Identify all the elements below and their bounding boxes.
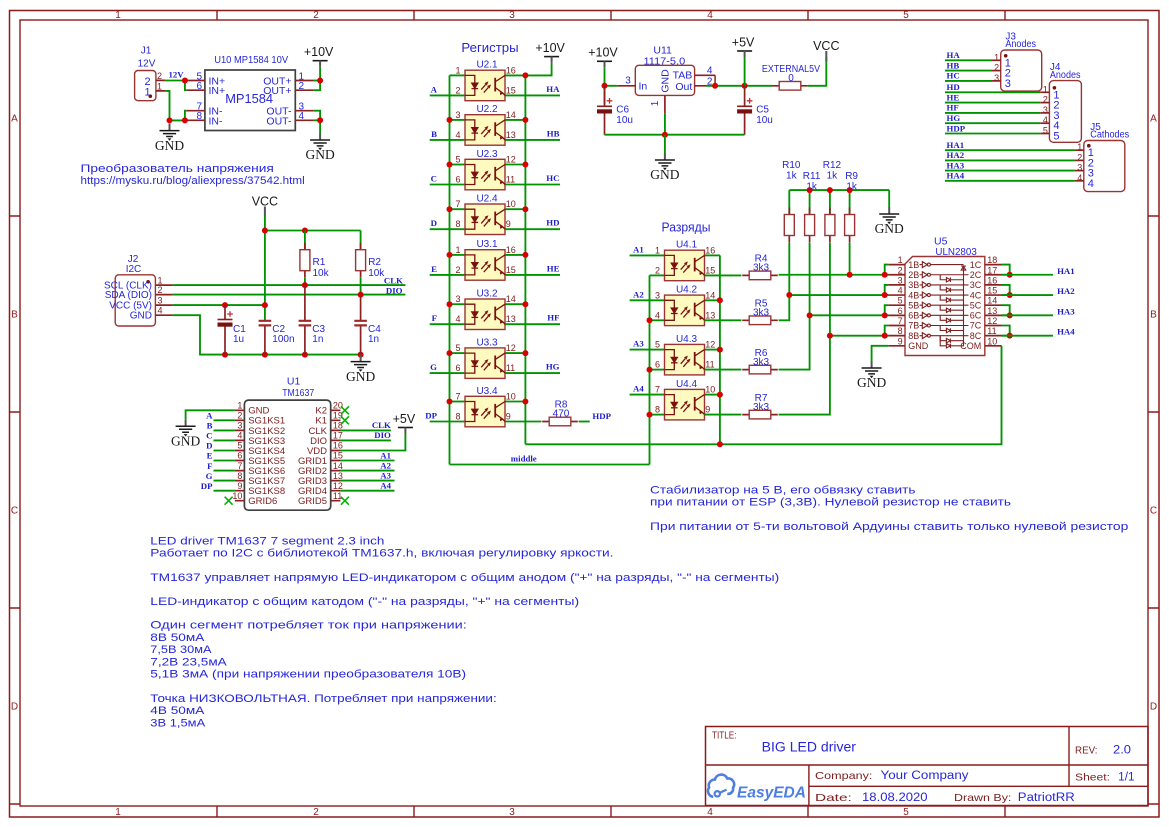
svg-text:1: 1 [115,10,121,21]
svg-text:4: 4 [655,310,660,320]
svg-text:13: 13 [506,314,516,324]
wire J1.1 to GND [165,91,186,121]
junction U5 in tie 6 [882,312,888,318]
svg-text:1: 1 [1043,84,1048,94]
power VCC (top) [825,51,827,61]
svg-text:8: 8 [237,471,242,481]
wire gnd stem wire [664,135,666,153]
svg-text:1: 1 [237,401,242,411]
wire HA to J3 [945,59,992,61]
wire HDP to J4 [945,133,1040,135]
junction R12 bus [827,187,833,193]
svg-text:5: 5 [455,343,460,353]
svg-text:OUT+: OUT+ [263,85,291,97]
svg-text:18.08.2020: 18.08.2020 [862,792,928,804]
svg-text:GND: GND [659,69,671,93]
svg-text:LED-индикатор с общим катодом: LED-индикатор с общим катодом ("-" на ра… [150,596,579,608]
junction R12 join [827,333,833,339]
capacitor C1 (polarized) [218,305,233,355]
svg-text:4: 4 [898,286,903,296]
svg-text:B: B [207,421,213,431]
wire U4.4 pin 10 to bus [705,394,720,396]
svg-text:U4.4: U4.4 [676,379,698,390]
svg-text:TITLE:: TITLE: [712,731,737,742]
optocoupler U3.3 [465,348,505,379]
svg-text:+10V: +10V [588,46,618,60]
resistor R10 body [784,208,794,243]
svg-text:U2.4: U2.4 [476,194,498,205]
junction R1 top [302,228,308,234]
junction U5 out tie 13 [1007,312,1013,318]
svg-text:10: 10 [506,392,516,402]
svg-text:Sheet:: Sheet: [1075,772,1110,784]
svg-text:VCC: VCC [813,39,839,53]
junction U5 in tie 2 [882,272,888,278]
junction 12V [182,78,188,84]
svg-text:8В 50мА: 8В 50мА [150,632,205,644]
svg-text:A: A [206,411,213,421]
no-connect X U1 pin 10 [225,497,233,505]
svg-text:GRID5: GRID5 [298,496,327,507]
svg-text:Cathodes: Cathodes [1090,130,1129,141]
svg-text:1k: 1k [827,170,839,181]
svg-text:14: 14 [333,461,343,471]
svg-text:18: 18 [333,421,343,431]
junction U5 out tie 15 [1007,292,1013,298]
svg-text:6: 6 [196,81,202,92]
wire input E [430,274,465,276]
svg-text:U10 MP1584 10V: U10 MP1584 10V [214,54,288,66]
junction left bus U4.2 [647,317,653,323]
svg-text:A2: A2 [380,460,391,470]
svg-text:A3: A3 [633,339,644,349]
junction C2 bottom [262,352,268,358]
junction CLK-R1 [302,282,308,288]
svg-text:3В 1,5мА: 3В 1,5мА [150,717,206,729]
svg-text:GND: GND [346,369,375,384]
wire output HG [505,372,560,374]
svg-text:7C: 7C [970,321,982,331]
junction left bus U4.4 [647,412,653,418]
junction R11 join [807,312,813,318]
svg-text:1: 1 [144,86,150,98]
svg-text:12: 12 [506,343,516,353]
U5 driver 4 [920,292,969,298]
svg-text:1: 1 [158,276,163,286]
resistor R11 body [805,208,815,243]
svg-text:HG: HG [947,113,961,123]
wire bus to U2.1 pin 1 [450,74,466,76]
svg-text:VCC: VCC [252,195,278,209]
svg-text:U2.3: U2.3 [476,149,498,160]
svg-text:13: 13 [987,306,997,316]
junction right bus U3.4 [522,399,528,405]
junction C3 bottom [302,352,308,358]
wire U10.2 to +10V [314,81,320,91]
svg-text:17: 17 [987,265,997,275]
svg-text:HA4: HA4 [947,171,965,181]
U5 COM diode bus [940,266,966,348]
wire bus to U4.2 pin 4 [650,319,665,321]
wire U5 pin14-pin13 tie [1002,305,1010,315]
wire output HD [505,228,560,230]
wire +10V stem [319,67,321,81]
svg-text:+5V: +5V [393,412,416,426]
resistor R7 [742,410,778,419]
svg-text:DIO: DIO [386,286,403,296]
svg-text:4В 50мА: 4В 50мА [150,705,205,717]
resistor R4 [742,271,778,280]
wire GND to U10.7 [185,111,186,121]
svg-text:19: 19 [333,411,343,421]
svg-text:2: 2 [898,265,903,275]
wire U4.1 pin 16 to bus [705,254,720,256]
svg-text:+10V: +10V [535,41,565,55]
svg-text:0: 0 [788,73,794,84]
svg-text:8: 8 [898,326,903,336]
svg-text:Company:: Company: [815,770,872,782]
svg-text:11: 11 [333,491,342,501]
svg-text:10: 10 [506,199,516,209]
ground J2 [351,355,371,372]
svg-text:4: 4 [455,130,460,140]
svg-text:C: C [1150,506,1157,517]
wire input A4 [630,394,665,396]
svg-text:4: 4 [707,65,713,76]
svg-text:Out: Out [675,81,692,93]
svg-text:13: 13 [506,130,516,140]
svg-text:1: 1 [455,245,460,255]
wire bus to U2.2 pin 3 [450,119,466,121]
wire U3.1 pin 16 to +10V bus [505,254,525,256]
svg-text:G: G [206,471,213,481]
svg-text:HA1: HA1 [947,140,965,150]
svg-text:HA4: HA4 [1057,327,1075,337]
wire U1 GRID1 A1 [340,460,394,462]
svg-text:16: 16 [333,441,343,451]
wire HA4 to J5 [945,180,1075,182]
svg-text:5: 5 [903,10,909,21]
svg-text:8B: 8B [908,331,919,341]
svg-text:R1: R1 [313,257,326,268]
junction R9 bus [847,187,853,193]
svg-text:3: 3 [455,110,460,120]
svg-text:Работает по I2C с библиотекой: Работает по I2C с библиотекой TM1637.h, … [150,548,613,560]
svg-text:8: 8 [655,405,660,415]
wire U3.2 pin 14 to +10V bus [505,303,525,305]
wire bus to U3.3 pin 5 [450,352,466,354]
junction right bus U4.2 [717,297,723,303]
svg-text:9: 9 [237,481,242,491]
svg-text:HDP: HDP [947,123,966,133]
svg-text:TAB: TAB [673,69,693,81]
resistor R12 body [825,208,835,243]
wire SDA/DIO [173,294,406,296]
wire U4.3 pin 12 to bus [705,349,720,351]
junction C1 top [222,302,228,308]
svg-text:4B: 4B [908,290,919,300]
svg-text:5: 5 [903,807,909,818]
svg-text:TM1637: TM1637 [282,387,314,399]
wire R11 top [809,190,811,214]
svg-text:15: 15 [506,265,516,275]
no-connect X U1 pin 20 [341,406,349,414]
junction left bus U4.3 [647,367,653,373]
wire HD to J4 [945,91,1040,93]
svg-text:10: 10 [987,336,997,346]
svg-text:5B: 5B [908,300,919,310]
junction VCC-J2 [262,302,268,308]
wire razryady right bus (+10V) [719,255,721,444]
svg-text:7: 7 [655,385,660,395]
svg-text:6: 6 [237,451,242,461]
svg-text:14: 14 [506,294,516,304]
wire input G [430,372,465,374]
wire HE to J4 [945,102,1040,104]
junction +10V In [602,83,608,89]
wire U1 VDD to +5V [340,434,405,451]
wire U1 CLK [340,429,391,431]
svg-text:J1: J1 [141,46,152,57]
svg-text:2: 2 [313,807,319,818]
junction right bus U4.4 [717,392,723,398]
svg-text:DIO: DIO [374,430,391,440]
svg-text:A: A [1150,114,1157,125]
junction GND-U10 [182,117,188,123]
no-connect X U1 pin 11 [341,497,349,505]
wire input D [430,228,465,230]
svg-text:LED driver TM1637 7 segment 2.: LED driver TM1637 7 segment 2.3 inch [150,535,384,547]
wire VCC to R1 R2 [265,230,361,232]
svg-text:B: B [11,310,18,321]
svg-text:7: 7 [455,392,460,402]
svg-text:11: 11 [987,326,996,336]
wire HF to J4 [945,112,1040,114]
connector J5 Cathodes [1075,141,1125,192]
wire bus to U2.3 pin 5 [450,164,466,166]
junction DIO-R2 [358,292,364,298]
svg-text:3k3: 3k3 [753,308,770,319]
wire R5 to U5 3B/4B [779,295,889,320]
junction R9 join [847,272,853,278]
junction left bus U2.2 [447,117,453,123]
junction right bus U2.4 [522,206,528,212]
junction right bus U3.3 [522,350,528,356]
wire U5 pin5-pin6 tie [885,305,889,315]
optocoupler U4.2 [665,295,705,326]
wire R6 to U5 5B/6B [779,315,889,369]
svg-text:4: 4 [707,10,713,21]
svg-text:6: 6 [455,175,460,185]
svg-text:4: 4 [158,306,163,316]
wire U4.2 pin 14 to bus [705,299,720,301]
svg-text:HA3: HA3 [1057,306,1075,316]
junction right bus U2.3 [522,162,528,168]
svg-text:GND: GND [857,375,886,390]
svg-text:5: 5 [655,340,660,350]
title block [706,727,1149,806]
svg-text:15: 15 [333,451,343,461]
svg-text:16: 16 [506,245,516,255]
power +10V (U10) [313,61,328,67]
wire R10 bottom [788,243,790,295]
svg-text:5: 5 [237,441,242,451]
wire +5V stem wire [744,57,746,86]
wire U1 input D [214,450,235,452]
wire U1 input B [214,429,235,431]
svg-text:14: 14 [506,110,516,120]
svg-text:5: 5 [1043,126,1048,136]
svg-text:HA: HA [947,50,961,60]
svg-text:HDP: HDP [592,411,611,421]
optocoupler U2.2 [465,115,505,146]
svg-text:10u: 10u [616,115,633,126]
module U10 MP1584 [186,70,314,131]
svg-text:12V: 12V [169,70,185,80]
wire J2 GND bus [173,315,361,354]
svg-text:U3.4: U3.4 [476,386,498,397]
svg-text:Date:: Date: [815,792,852,804]
connector J2 [115,275,172,326]
svg-text:8: 8 [455,412,460,422]
wire U1 GND [186,410,235,419]
svg-text:7: 7 [237,461,242,471]
capacitor C2 [259,321,272,355]
wire output HF [505,323,560,325]
junction R11 bus [807,187,813,193]
EasyEDA logo [708,775,734,797]
svg-text:DP: DP [201,481,213,491]
wire U5 pin1-pin2 tie [885,265,889,275]
optocoupler U2.1 [465,70,505,101]
svg-text:ТМ1637 управляет напрямую LED-: ТМ1637 управляет напрямую LED-индикаторо… [150,572,779,584]
junction right bus U3.1 [522,252,528,258]
resistor R1 body [300,243,310,278]
wire U5 pin16-pin15 tie [1002,285,1010,295]
wire R2 bottom [360,278,362,295]
svg-text:HF: HF [547,313,559,323]
junction left bus U3.3 [447,350,453,356]
wire U1 DIO [340,439,391,441]
wire U3.4 pin9 to R8 [505,421,542,423]
svg-text:R2: R2 [368,257,381,268]
svg-text:2: 2 [455,265,460,275]
wire U3.3 pin 12 to +10V bus [505,352,525,354]
svg-text:HA2: HA2 [1057,286,1075,296]
capacitor C6 (polarized) [597,86,612,135]
svg-text:4: 4 [1088,178,1094,190]
wire HB to J3 [945,70,992,72]
wire R7 to U5 7B/8B [779,336,889,415]
svg-text:5,1В 3мА (при напряжении преоб: 5,1В 3мА (при напряжении преобразователя… [150,669,466,681]
svg-text:G: G [430,362,437,372]
svg-text:HA3: HA3 [947,160,965,170]
svg-text:2C: 2C [970,270,982,280]
svg-text:при питании от ESP (3,3В). Нул: при питании от ESP (3,3В). Нулевой резис… [650,497,1011,509]
svg-text:1: 1 [115,807,121,818]
power +5V (U1) [398,428,413,434]
svg-text:GND: GND [908,341,929,351]
wire U3.4 pin 10 to +10V bus [505,401,525,403]
svg-text:3: 3 [1077,163,1082,173]
wire output HB [505,139,560,141]
junction U5 out tie 11 [1007,333,1013,339]
ground U1 [176,419,196,436]
svg-text:1: 1 [157,81,162,91]
wire U2.3 pin 12 to +10V bus [505,164,525,166]
regulator U11 1117-5.0 [617,65,715,113]
svg-text:1: 1 [1077,142,1082,152]
svg-text:U1: U1 [287,376,301,388]
svg-text:HF: HF [947,103,959,113]
svg-text:12: 12 [705,340,715,350]
resistor R9 body [845,208,855,243]
wire registers left bus (middle net) [449,75,451,464]
svg-text:15: 15 [705,265,715,275]
svg-text:Your Company: Your Company [881,770,969,782]
svg-text:10k: 10k [368,268,385,279]
U5 driver 1 [920,262,964,268]
wire 12V net J1.2 to U10.5 [165,80,186,82]
optocoupler U4.4 [665,389,705,420]
power +5V (U11) [737,51,752,57]
svg-text:PatriotRR: PatriotRR [1018,792,1075,804]
capacitor C5 (polarized) [737,86,752,135]
junction C1 bottom [222,352,228,358]
svg-text:U4.1: U4.1 [676,240,698,251]
svg-text:E: E [207,451,213,461]
wire U5 pin12-pin11 tie [1002,326,1010,336]
svg-text:10: 10 [232,491,242,501]
svg-text:A1: A1 [633,244,644,254]
wire U5 output HA4 [1002,335,1054,337]
wire U4.1 pin 15 to R4 [705,274,742,276]
svg-text:GND: GND [171,434,200,449]
wire U2.4 pin 10 to +10V bus [505,208,525,210]
junction right bus U2.2 [522,117,528,123]
wire SCL/CLK [173,284,406,286]
svg-text:middle: middle [511,454,537,464]
svg-text:In: In [639,80,648,92]
wire U11 gnd bus [605,134,745,136]
wire U5 output HA2 [1002,294,1054,296]
svg-text:Разряды: Разряды [662,220,711,235]
wire U11 pin1 to gnd [664,113,666,134]
optocoupler U4.1 [665,250,705,281]
wire bus to U3.4 pin 7 [450,401,466,403]
svg-text:12: 12 [506,155,516,165]
svg-text:2: 2 [1077,152,1082,162]
wire U5 output HA1 [1002,274,1054,276]
wire U1 input A [214,419,235,421]
svg-text:3: 3 [158,296,163,306]
svg-text:2: 2 [455,85,460,95]
svg-text:U4.2: U4.2 [676,285,698,296]
junction U5 in tie 8 [882,333,888,339]
svg-text:1k: 1k [786,170,798,181]
svg-text:6: 6 [655,360,660,370]
wire U5 output HA3 [1002,314,1054,316]
wire R12 top [829,190,831,214]
svg-text:U3.3: U3.3 [476,337,498,348]
svg-text:470: 470 [553,409,570,420]
wire Out +5V rail [706,85,773,87]
wire U1 input DP [214,490,235,492]
wire R10 top [788,190,790,214]
svg-text:Стабилизатор на 5 В, его обвяз: Стабилизатор на 5 В, его обвязку ставить [650,485,916,497]
svg-text:CLK: CLK [372,420,391,430]
svg-text:C: C [431,174,437,184]
